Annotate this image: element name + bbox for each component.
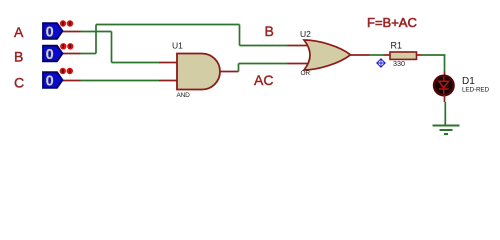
pin R1 right [417, 54, 422, 56]
ground [433, 126, 460, 135]
wire A output red stub [63, 31, 81, 33]
wire C green to AND [81, 80, 160, 82]
wire B output red stub [63, 53, 81, 55]
svg-text:A: A [14, 24, 24, 40]
pin D1 cathode [444, 95, 446, 102]
wire R1 to corner [422, 54, 446, 56]
wire B riser up [95, 25, 97, 54]
svg-text:0: 0 [46, 47, 54, 63]
or-gate U2 body [304, 40, 351, 70]
logicstate A [43, 20, 73, 40]
svg-text:B: B [14, 49, 23, 65]
wire B short green [81, 53, 97, 55]
svg-text:LED-RED: LED-RED [462, 86, 490, 93]
origin marker [377, 59, 385, 67]
svg-text:0: 0 [46, 24, 54, 40]
wire OR to R1 [370, 54, 384, 56]
pin D1 anode [444, 72, 446, 76]
svg-text:330: 330 [393, 59, 405, 68]
pin R1 left [384, 54, 391, 56]
svg-text:U1: U1 [172, 41, 183, 51]
LED D1 [434, 76, 454, 96]
svg-text:AC: AC [254, 72, 273, 88]
svg-text:R1: R1 [391, 40, 403, 50]
and-gate U1 body [177, 54, 220, 90]
wire A vertical drop [111, 32, 113, 63]
wire A to AND input [112, 62, 160, 64]
pin U2 bottom input [288, 63, 311, 65]
svg-text:OR: OR [301, 70, 311, 77]
wire B drop to OR [239, 25, 241, 46]
wire down to LED [444, 55, 446, 72]
pin U1 bottom input [159, 80, 177, 82]
wire AC to OR input [239, 63, 288, 65]
pin U2 top input [288, 45, 311, 47]
svg-text:B: B [265, 23, 274, 39]
wire A horizontal green [81, 31, 112, 33]
svg-text:0: 0 [46, 73, 54, 89]
wire B into OR input [240, 45, 288, 47]
svg-text:AND: AND [177, 92, 191, 99]
pin U2 output [349, 54, 370, 56]
pin U1 top input [159, 62, 177, 64]
logicstate B [43, 43, 74, 63]
resistor R1 body [390, 52, 417, 59]
svg-text:C: C [14, 75, 24, 91]
svg-text:U2: U2 [300, 29, 311, 39]
svg-text:F=B+AC: F=B+AC [367, 15, 417, 30]
wire LED to ground [444, 102, 446, 125]
pin U1 output [220, 71, 239, 73]
wire B top rail [96, 24, 240, 26]
wire C output red stub [63, 80, 81, 82]
logicstate C [43, 68, 73, 90]
wire AND out jog up [238, 64, 240, 72]
